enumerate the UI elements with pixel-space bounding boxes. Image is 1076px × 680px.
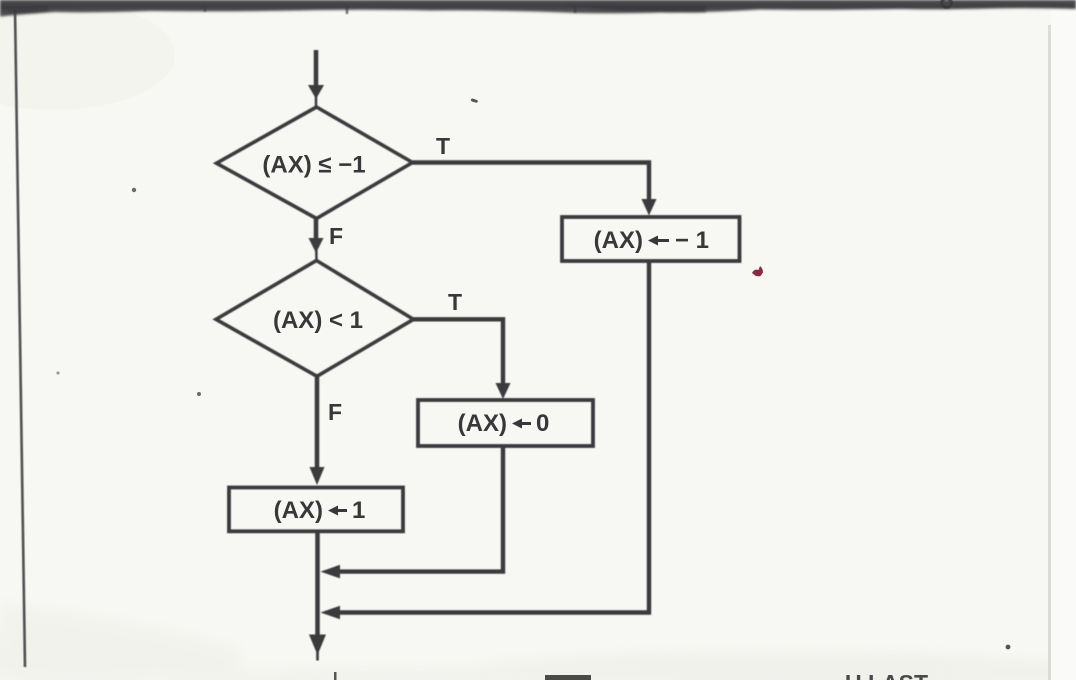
svg-text:(AX): (AX) (458, 410, 507, 437)
arrowhead merge2 (321, 606, 341, 620)
descender of cut text (204, 6, 206, 12)
arrowhead into box B3 (310, 467, 325, 485)
decision D2 diamond (216, 261, 414, 377)
wire stub into D1 (315, 96, 318, 107)
svg-text:F: F (328, 399, 342, 425)
left margin rule (15, 9, 25, 667)
wire T2 (414, 319, 504, 385)
paper shading top-left (0, 0, 175, 110)
process box B1 (AX) <- -1 (562, 217, 740, 261)
speck dot (1006, 645, 1011, 650)
label B2 assign-arrow (512, 419, 531, 429)
wire F1 (314, 219, 319, 242)
svg-text:1: 1 (352, 497, 365, 524)
exit arrow tail (316, 652, 319, 661)
wire B3 exit / main out (315, 531, 320, 637)
svg-text:F: F (329, 223, 343, 249)
descender g of cut text (942, 0, 952, 8)
top scan band (0, 0, 1076, 17)
arrowhead into box B1 (642, 199, 657, 216)
exit arrowhead (309, 635, 326, 656)
wire B1 exit down (332, 261, 649, 613)
wire B2 exit down (332, 446, 503, 572)
speck dot (197, 392, 201, 396)
wire F2 (315, 376, 320, 469)
arrowhead F1 (309, 238, 324, 253)
svg-text:0: 0 (536, 410, 549, 437)
bottom cut-off rule remnant (545, 675, 591, 680)
svg-text:T: T (436, 133, 450, 159)
label B3 assign-arrow (328, 506, 347, 516)
entry arrowhead (308, 85, 324, 99)
arrowhead into box B2 (496, 383, 511, 399)
svg-text:(AX): (AX) (594, 227, 643, 254)
speck dot (56, 371, 59, 374)
svg-text:(AX) ≤ −1: (AX) ≤ −1 (262, 152, 365, 179)
svg-text:− 1: − 1 (675, 227, 709, 254)
bottom cut-off tick (334, 672, 337, 680)
descender p of cut text (346, 6, 349, 14)
entry wire (314, 50, 319, 90)
arrowhead merge1 (321, 565, 341, 579)
svg-text:(AX) < 1: (AX) < 1 (273, 307, 363, 334)
paper shading bottom (0, 604, 1076, 680)
wire T1 horizontal (413, 163, 650, 202)
speck dot (132, 188, 136, 192)
svg-text:U LAST: U LAST (845, 670, 928, 680)
right page-edge light line (1051, 0, 1076, 680)
decision D1 diamond (217, 107, 413, 219)
red pen mark (752, 266, 763, 276)
svg-text:T: T (448, 289, 462, 315)
speck dash (471, 98, 479, 103)
label B1 assign-arrow (648, 236, 669, 246)
svg-text:(AX): (AX) (274, 497, 323, 524)
descender of cut text (574, 6, 577, 13)
process box B2 (AX) <- 0 (418, 400, 593, 446)
process box B3 (AX) <- 1 (229, 488, 403, 532)
wire stub into D2 (315, 250, 318, 261)
